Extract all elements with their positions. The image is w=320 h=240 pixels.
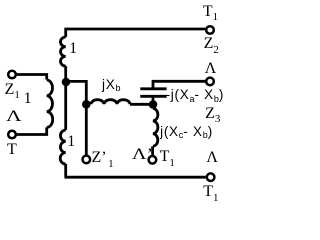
wire left winding (bottom) to terminal T	[16, 127, 47, 134]
label jXb	[102, 78, 120, 92]
wire bottom horizontal to T1/Lambda terminal	[65, 176, 206, 179]
label j(Xc-Xb)	[160, 125, 213, 139]
wire winding to T1 terminal (middle bottom)	[151, 146, 154, 155]
label T1 (bottom right, below terminal)	[203, 184, 218, 200]
wire node dot1 to dot2 (right then down)	[66, 81, 86, 104]
wire coil to node dot1	[64, 66, 67, 83]
terminal Z1 (open circle, left top)	[8, 71, 16, 79]
label Lambda' (left of bottom middle terminal)	[132, 147, 153, 163]
label Z3	[205, 106, 220, 122]
inductor 1 (upper centre winding)	[60, 37, 65, 66]
inductor j(Xc-Xb) (right vertical winding)	[153, 108, 158, 146]
label 1 (upper centre winding)	[69, 41, 77, 57]
label T (left bottom terminal)	[7, 142, 17, 158]
label Lambda (left)	[6, 109, 22, 125]
label T1 (right of bottom middle terminal)	[160, 149, 175, 165]
wire lower winding to bottom corner	[64, 164, 67, 177]
label Lambda (bottom right, above terminal)	[206, 150, 218, 166]
wire top horizontal to T1/Z2 terminal	[66, 28, 206, 31]
terminal T1/Z2 (open circle, right top)	[206, 26, 214, 34]
terminal Lambda (open circle, right mid)	[206, 78, 214, 86]
terminal T1 (open circle, bottom middle)	[149, 156, 157, 164]
capacitor -j(Xa-Xb) bottom plate	[140, 95, 166, 98]
capacitor -j(Xa-Xb) top plate	[140, 87, 166, 90]
wire dot2 down to Z'1 terminal	[85, 104, 88, 155]
terminal T1/Lambda (open circle, bottom right)	[207, 173, 215, 181]
label T1 (top right)	[203, 4, 218, 20]
label 1 (lower centre winding)	[67, 134, 75, 150]
label Lambda (right, above mid terminal)	[205, 61, 217, 77]
inductor 1 (lower centre winding)	[60, 130, 65, 164]
node dot2	[82, 100, 91, 109]
label 1 (left winding)	[24, 91, 32, 107]
node dot1	[62, 78, 71, 87]
wire capacitor top plate up and right to Lambda terminal	[153, 81, 206, 89]
wire jXb to node dot3	[130, 103, 153, 106]
label -j(Xa-Xb)	[166, 88, 225, 102]
label Z2	[204, 36, 219, 52]
wire top-left corner vertical stub	[64, 28, 67, 37]
wire dot3 up to capacitor bottom plate	[152, 97, 155, 105]
label Z1 (left top terminal)	[5, 82, 20, 98]
inductor jXb (horizontal)	[91, 100, 130, 105]
wire dot1 down to lower winding	[64, 82, 67, 130]
terminal Z'1 (open circle, bottom middle-left)	[83, 156, 91, 164]
label Z'1 (right of Z'1 terminal)	[92, 150, 114, 166]
terminal T (open circle, left bottom)	[8, 131, 16, 139]
inductor 1 (left winding)	[47, 80, 53, 128]
wire terminal Z1 to left winding (top)	[16, 75, 47, 80]
node dot3	[149, 100, 158, 109]
